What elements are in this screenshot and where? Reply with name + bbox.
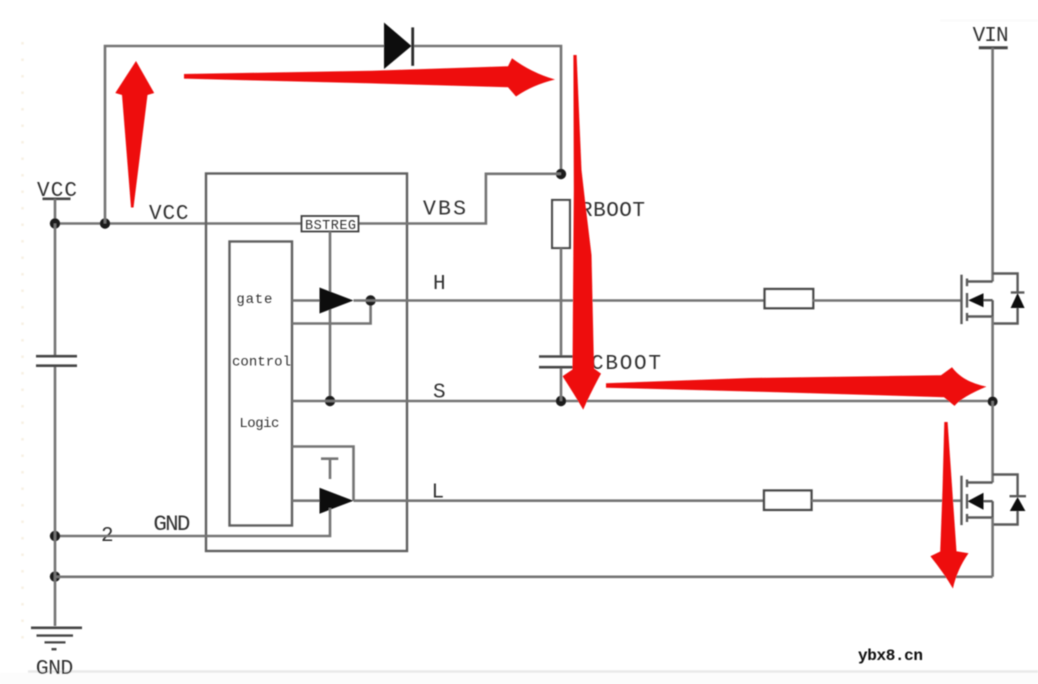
wire left rail lower: [54, 367, 57, 626]
resistor RBOOT: [552, 200, 645, 248]
wire bottom rail: [55, 575, 993, 578]
wire H buffer input: [292, 299, 320, 302]
power symbol VCC: [37, 180, 77, 224]
transistor Q1 high side MOSFET: [962, 274, 1025, 325]
wire arrow boot down path: [563, 55, 602, 410]
wire H to gate resistor: [354, 299, 766, 302]
logic block gate control Logic: [230, 242, 293, 526]
svg-text:GND: GND: [36, 657, 74, 681]
svg-text:VIN: VIN: [973, 25, 1009, 48]
node CBOOT junction: [556, 396, 566, 406]
wire RBOOT to CBOOT: [560, 248, 563, 355]
svg-text:CBOOT: CBOOT: [591, 353, 661, 376]
svg-text:gate: gate: [236, 292, 272, 308]
op-amp low side buffer: [320, 488, 354, 514]
wire left rail upper: [54, 224, 57, 356]
wire arrow S return path: [606, 367, 986, 406]
wire L to gate resistor: [354, 499, 765, 502]
wire RL to Q2 gate: [812, 499, 962, 502]
wire H feedback: [292, 301, 371, 324]
wire RH to Q1 gate: [812, 299, 961, 302]
wire arrow up VCC charge path: [115, 61, 154, 208]
resistor RL gate: [764, 491, 812, 510]
wire VBS step: [359, 174, 562, 224]
svg-text:control: control: [232, 355, 291, 371]
wire Q2 source to bottom rail: [991, 518, 994, 577]
wire VCC rail horizontal: [55, 222, 302, 225]
wire arrow down return path: [930, 422, 968, 589]
wire arrow top charge path: [184, 58, 555, 96]
node S main junction: [988, 397, 998, 407]
resistor RH gate: [765, 289, 814, 308]
svg-text:H: H: [433, 273, 446, 296]
wire riser to top: [105, 46, 384, 224]
wire CBOOT to S: [560, 368, 563, 401]
op-amp U1 driver IC box: [206, 174, 407, 552]
transistor level shift T: [321, 459, 338, 479]
wire BSTREG down: [329, 232, 332, 402]
wire L driver frame: [292, 447, 354, 501]
node boot junction: [556, 169, 566, 179]
wire GND pin: [55, 508, 330, 536]
svg-text:S: S: [433, 382, 446, 405]
ground: [31, 628, 82, 681]
op-amp high side buffer: [320, 288, 354, 314]
wire VIN to Q1 drain: [991, 48, 994, 282]
svg-text:VCC: VCC: [149, 203, 189, 226]
node bottom rail junction: [50, 571, 60, 581]
power symbol VIN: [973, 25, 1009, 48]
node VCC junction left: [50, 218, 60, 228]
capacitor C1: [36, 356, 77, 366]
transistor Q2 low side MOSFET: [962, 475, 1027, 526]
svg-text:L: L: [432, 482, 445, 505]
wire Q1 source to S node: [991, 317, 994, 402]
wire top to boot node: [414, 46, 561, 174]
node GND junction: [50, 531, 60, 541]
wire L buffer input: [292, 499, 320, 502]
svg-text:VBS: VBS: [423, 198, 466, 222]
svg-text:Logic: Logic: [239, 416, 279, 432]
regulator BSTREG box: [302, 216, 359, 234]
svg-text:ybx8.cn: ybx8.cn: [858, 647, 923, 665]
node H junction: [365, 295, 375, 305]
node S internal junction: [325, 396, 335, 406]
diode D1 bootstrap: [384, 23, 413, 70]
wire S line: [292, 400, 993, 403]
capacitor CBOOT: [539, 353, 661, 376]
wire S node to Q2 drain: [991, 401, 994, 483]
svg-text:RBOOT: RBOOT: [580, 200, 645, 223]
node VCC junction riser: [100, 218, 110, 228]
svg-text:GND: GND: [153, 511, 190, 537]
